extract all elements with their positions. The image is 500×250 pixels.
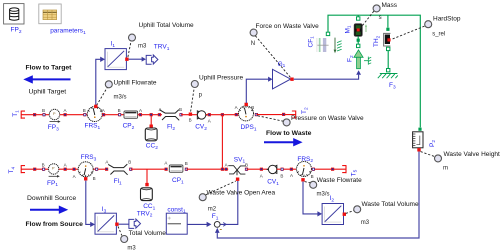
small velocity arrow	[365, 24, 367, 32]
svg-text:s: s	[379, 15, 382, 21]
sensor Mass	[373, 5, 380, 12]
svg-text:Mass: Mass	[382, 2, 398, 9]
svg-text:Flow to Waste: Flow to Waste	[266, 130, 312, 137]
wire DPS1 to G1	[246, 79, 268, 103]
sensor Waste Valve Height	[435, 155, 442, 162]
sensor Waste Flowrate	[310, 181, 317, 188]
accumulator CC2	[145, 128, 157, 141]
sensor Uphill Pressure	[191, 81, 198, 88]
gauge FRS3	[78, 162, 93, 177]
F2 support bracket	[364, 57, 371, 65]
svg-text:m3/s: m3/s	[317, 191, 330, 197]
svg-text:m3/s: m3/s	[114, 95, 127, 101]
svg-text:Uphill Flowrate: Uphill Flowrate	[114, 80, 157, 87]
sensor Waste Total Volume	[354, 206, 361, 213]
svg-text:HardStop: HardStop	[433, 16, 461, 23]
junction to CC2	[150, 115, 152, 127]
svg-text:B: B	[93, 176, 96, 181]
wire	[312, 168, 346, 170]
pressure tap port	[189, 113, 192, 116]
svg-text:Force on Waste Valve: Force on Waste Valve	[256, 23, 320, 30]
svg-text:Uphill Target: Uphill Target	[29, 89, 67, 96]
svg-text:B: B	[280, 174, 283, 179]
wire I1 to TRV1	[129, 58, 142, 60]
svg-text:Flow from Source: Flow from Source	[26, 221, 84, 228]
wire	[277, 168, 297, 170]
wire junction vertical	[221, 115, 223, 170]
svg-text:Waste Valve Open Area: Waste Valve Open Area	[207, 190, 276, 197]
svg-text:Waste Flowrate: Waste Flowrate	[317, 177, 362, 184]
accumulator CC1	[141, 188, 153, 201]
sum junction F1	[214, 222, 220, 228]
svg-text:B: B	[128, 160, 131, 165]
sensor Total Volume	[121, 236, 128, 243]
sensor Uphill Total Volume	[129, 34, 136, 41]
svg-text:B: B	[42, 108, 45, 113]
svg-text:A: A	[164, 161, 167, 166]
svg-text:A: A	[73, 174, 76, 179]
pipe CP2	[124, 111, 138, 118]
svg-text:Total Volume: Total Volume	[129, 230, 167, 237]
junction to CC1	[146, 169, 148, 185]
wire	[186, 168, 228, 170]
wire F1 to SV1 control	[220, 181, 238, 224]
svg-text:B: B	[245, 162, 248, 167]
sensor Force on Waste Valve	[250, 29, 257, 36]
wire	[102, 114, 124, 116]
svg-text:B: B	[185, 161, 188, 166]
wire	[131, 168, 166, 170]
svg-text:B: B	[189, 118, 192, 123]
svg-text:B: B	[251, 105, 254, 110]
wire	[181, 114, 198, 116]
data file icon FP2	[4, 4, 24, 24]
svg-text:Uphill Pressure: Uphill Pressure	[199, 74, 243, 81]
svg-text:A: A	[290, 173, 293, 178]
wire	[21, 168, 48, 170]
force source F2	[354, 50, 363, 69]
arrow right (blue)	[264, 138, 303, 146]
svg-text:A: A	[235, 105, 238, 110]
svg-text:m3: m3	[127, 245, 136, 250]
hard stop TH2	[387, 15, 389, 27]
svg-text:Uphill Total Volume: Uphill Total Volume	[139, 22, 195, 29]
svg-text:s_rel: s_rel	[432, 32, 445, 38]
wire	[138, 114, 162, 116]
svg-text:A: A	[260, 173, 263, 178]
arrow left (blue)	[23, 75, 70, 83]
G1 output port	[290, 78, 293, 81]
parameter table icon parameters1	[39, 4, 61, 24]
integrator I1	[105, 49, 126, 70]
svg-text:m2: m2	[208, 207, 217, 213]
svg-text:A: A	[208, 119, 211, 124]
wire	[21, 114, 49, 116]
wire feedback (position to F1)	[217, 152, 419, 239]
sensor Waste Valve Open Area	[199, 194, 206, 201]
arrow right (blue)	[30, 206, 68, 214]
wire	[357, 36, 359, 44]
wire const1 to F1	[187, 223, 207, 225]
gain G1	[273, 69, 291, 89]
wire	[256, 114, 295, 116]
integrator I3	[95, 213, 116, 234]
svg-text:B: B	[83, 108, 86, 113]
svg-text:B: B	[42, 162, 45, 167]
wire green bus	[328, 15, 420, 127]
position sensor P2 (waste valve)	[418, 128, 421, 131]
wire	[247, 168, 269, 170]
check valve CV2	[197, 111, 207, 119]
integrator I1 output port	[125, 58, 128, 61]
svg-text:A: A	[102, 108, 105, 113]
spring-damper CF1	[326, 32, 329, 35]
svg-text:m3: m3	[138, 44, 147, 50]
wire	[93, 168, 108, 170]
svg-text:B: B	[179, 107, 182, 112]
wire	[59, 168, 78, 170]
ground F3	[387, 69, 390, 72]
svg-text:A: A	[105, 160, 108, 165]
svg-text:B: B	[311, 174, 314, 179]
svg-text:Pressure on Waste Valve: Pressure on Waste Valve	[291, 115, 364, 122]
svg-text:A: A	[225, 162, 228, 167]
wire	[387, 51, 389, 69]
tank T5	[342, 165, 346, 173]
gravity arrow + support	[334, 38, 336, 50]
wire FRS3 to I3	[86, 181, 91, 225]
pump FP1	[48, 164, 58, 174]
mass M1	[357, 15, 359, 17]
junction node to waste line	[221, 113, 224, 116]
svg-text:Waste Total Volume: Waste Total Volume	[362, 201, 419, 208]
check valve CV1	[267, 165, 277, 173]
svg-text:A: A	[64, 162, 67, 167]
pump FP3	[49, 109, 59, 119]
svg-text:N: N	[251, 41, 255, 47]
node (green junction)	[357, 39, 360, 42]
minus sign	[220, 228, 222, 231]
svg-text:Downhill Source: Downhill Source	[27, 195, 76, 202]
svg-text:Flow to Target: Flow to Target	[26, 65, 73, 72]
wire	[60, 114, 88, 116]
sensor Uphill Flowrate	[105, 81, 112, 88]
wire FRS1 to I1	[96, 59, 101, 106]
flow restrictor Fl1	[108, 164, 127, 175]
tank T2	[292, 111, 296, 119]
sensor HardStop	[425, 21, 432, 28]
svg-text:A: A	[64, 108, 67, 113]
sensor Pressure on Waste Valve	[283, 119, 290, 126]
svg-text:B: B	[118, 108, 121, 113]
svg-text:A: A	[139, 108, 142, 113]
constant block const1	[166, 213, 187, 234]
svg-text:m3: m3	[361, 220, 370, 226]
wire FRS2 to I2	[303, 182, 318, 214]
gauge FRS1	[87, 107, 102, 122]
wire	[206, 114, 239, 116]
wire I3 to TRV2	[119, 223, 129, 225]
svg-text:m: m	[443, 166, 448, 172]
block TRV2	[129, 219, 141, 228]
gauge FRS2	[297, 162, 312, 177]
integrator I2	[322, 204, 343, 225]
block TRV1	[146, 55, 158, 64]
svg-text:Waste Valve Height: Waste Valve Height	[444, 151, 500, 158]
wire G1 to F2	[294, 75, 359, 80]
